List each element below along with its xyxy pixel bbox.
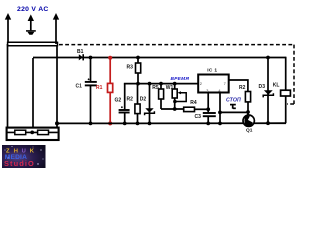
resistor R1 (red) (96, 56, 113, 126)
svg-text:R5: R5 (152, 85, 159, 91)
node dot C1/top (89, 56, 93, 60)
svg-text:R2: R2 (127, 97, 134, 103)
heating element 2 (38, 130, 49, 134)
wire: right mains down to bottom rail (56, 45, 58, 128)
potentiometer W1 (166, 82, 186, 111)
svg-text:StudiO: StudiO (4, 159, 35, 168)
svg-text:D2: D2 (140, 97, 147, 103)
svg-text:G2: G2 (115, 98, 122, 104)
top rail wire (33, 57, 286, 59)
op-amp / timer IC U1 (198, 68, 229, 93)
capacitor C1 (76, 58, 97, 125)
svg-text:3: 3 (206, 88, 208, 93)
zener diode D3 (259, 56, 274, 126)
transistor Q1 (243, 112, 254, 134)
wire relay branch corner (285, 96, 287, 123)
svg-text:R3: R3 (127, 65, 134, 71)
mains earth arrow with ground symbol (26, 14, 36, 34)
wire pushbutton net (220, 111, 248, 113)
logo ZHUK MEDIA Studio (2, 145, 46, 168)
zener diode D2 (140, 82, 155, 126)
resistor R3 (127, 56, 141, 86)
svg-text:D3: D3 (259, 84, 266, 90)
node wire (time network) (125, 83, 198, 86)
relay coil KL (273, 83, 291, 97)
svg-text:KL: KL (273, 83, 280, 89)
svg-text:СТОП: СТОП (226, 97, 241, 103)
svg-text:220 V AC: 220 V AC (17, 6, 49, 13)
node heater tap (30, 131, 34, 135)
svg-text:Q1: Q1 (246, 128, 253, 134)
svg-text:R1: R1 (96, 85, 103, 91)
wire IC pin7 to R2 (229, 80, 248, 92)
dashed enclosure border (59, 45, 294, 104)
mains twin cable (double line) (8, 42, 58, 47)
diode B1 (77, 49, 84, 60)
svg-text:2: 2 (200, 81, 202, 86)
svg-text:IC 1: IC 1 (207, 68, 217, 74)
junction at bottom rail / heater (55, 121, 59, 125)
wire: top rail down to relay (285, 57, 287, 91)
wire: heater centre tap up to top rail corner (32, 58, 34, 132)
node dot C1/bottom (89, 122, 93, 126)
resistor R5 (152, 82, 163, 109)
mains arrow L (left) (5, 13, 11, 43)
svg-text:7: 7 (224, 81, 226, 86)
capacitor G2 (115, 84, 130, 126)
capacitor C3 (195, 93, 216, 126)
resistor R4 (184, 100, 210, 111)
svg-text:B1: B1 (77, 49, 84, 55)
resistor R2 (timing) (127, 84, 141, 126)
svg-text:ВРЕМЯ: ВРЕМЯ (171, 76, 190, 82)
svg-text:R2: R2 (239, 85, 246, 91)
resistor R2 (base) (239, 85, 251, 116)
heating element 1 (15, 130, 26, 134)
svg-text:C1: C1 (76, 84, 83, 90)
svg-text:W1: W1 (166, 85, 174, 91)
svg-text:R4: R4 (190, 100, 197, 106)
bottom rail wire (57, 122, 286, 124)
stop pushbutton (230, 105, 236, 109)
svg-text:C3: C3 (195, 114, 202, 120)
heater boiler box (7, 128, 59, 140)
wire R5/W1 bottom to R4 (161, 108, 184, 110)
wire: left mains down to heater (7, 44, 9, 128)
mains arrow N (right) (53, 13, 59, 44)
wire IC pin4 down to bottom rail (219, 93, 221, 125)
